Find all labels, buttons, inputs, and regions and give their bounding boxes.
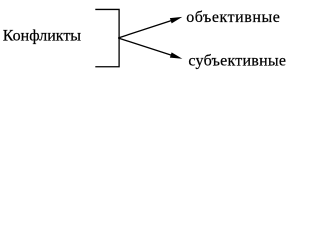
- bracket (right square brace): [95, 9, 119, 66]
- arrowhead: lower arrow: [170, 52, 182, 58]
- svg-text:субъективные: субъективные: [188, 52, 286, 69]
- arrowhead: upper arrow: [170, 17, 182, 23]
- svg-text:Конфликты: Конфликты: [3, 27, 82, 44]
- wire: lower arrow shaft: [118, 38, 174, 56]
- wire: upper arrow shaft: [118, 20, 174, 38]
- svg-text:объективные: объективные: [186, 9, 280, 26]
